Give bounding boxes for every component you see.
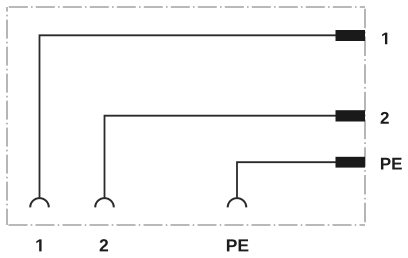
enclosure outline left edge (dash-dot) — [6, 7, 8, 225]
terminal block pin 2 — [336, 110, 366, 121]
label pin 2 (right) — [381, 112, 389, 124]
terminal block PE — [336, 157, 366, 168]
enclosure outline top edge (dash-dot) — [7, 6, 365, 8]
contact socket 1 (arc) — [30, 198, 49, 207]
contact socket 2 (arc) — [95, 198, 114, 207]
wire pin 1 — [40, 35, 337, 197]
label contact 2 (bottom) — [100, 239, 108, 251]
terminal block pin 1 — [336, 30, 366, 41]
enclosure outline bottom edge (dash-dot) — [7, 224, 365, 226]
contact socket PE (arc) — [228, 198, 247, 207]
label PE (right) — [381, 158, 402, 170]
wire pin 2 — [105, 116, 337, 198]
wire PE — [237, 162, 336, 197]
label contact PE (bottom) — [227, 239, 248, 251]
label contact 1 (bottom) — [36, 239, 41, 251]
enclosure outline right edge (dash-dot) — [364, 7, 366, 225]
label pin 1 (right) — [382, 33, 387, 45]
